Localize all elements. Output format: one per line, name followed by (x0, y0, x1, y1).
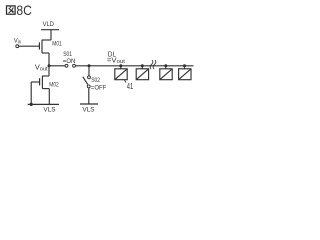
wire stub box4 (184, 66, 186, 69)
pixel box 4 (179, 69, 191, 80)
node gate-VLS junction dot (30, 103, 33, 106)
terminal Vin (16, 45, 19, 48)
wire M02 gate to VLS (30, 82, 32, 104)
break squiggle (150, 60, 156, 69)
wire M02 gate lead (31, 81, 39, 83)
pixel box 2 (136, 69, 148, 80)
node DL dot 4 (183, 64, 186, 67)
wire stub box2 (141, 66, 143, 69)
wire S02 stem (88, 66, 90, 76)
svg-text:S01: S01 (63, 52, 72, 58)
svg-text:M01: M01 (52, 41, 62, 47)
wire stub box1 (120, 66, 122, 69)
svg-text:=OFF: =OFF (91, 84, 107, 91)
transistor M01 (42, 39, 51, 41)
VLS rail right (80, 103, 98, 105)
switch S02 blade (83, 77, 88, 85)
svg-text:VLD: VLD (43, 21, 54, 28)
node Vout junction dot (48, 64, 51, 67)
svg-text:41: 41 (127, 82, 134, 91)
wire stub box3 (165, 66, 167, 69)
svg-text:=Vout: =Vout (107, 57, 126, 65)
wire trunk M01 source to M02 drain (48, 53, 50, 76)
svg-text:Vin: Vin (14, 38, 21, 46)
VLD rail (41, 29, 59, 31)
leader 41 (125, 80, 127, 83)
node DL dot 1 (119, 64, 122, 67)
svg-text:Vout: Vout (35, 65, 48, 73)
wire Vout node to S01 (49, 65, 65, 67)
node S02 branch dot (88, 64, 91, 67)
svg-text:M02: M02 (49, 82, 59, 88)
transistor M02 (42, 75, 49, 77)
svg-text:VLS: VLS (82, 106, 95, 113)
VLS rail left (28, 103, 59, 105)
pixel box 3 (160, 69, 172, 80)
switch S01 contacts (65, 64, 68, 67)
switch S02 bottom contact (87, 85, 90, 88)
figure label 図 glyph (7, 6, 16, 14)
node DL dot 2 (141, 64, 144, 67)
wire M02 source drop (48, 89, 50, 105)
svg-text:VLS: VLS (43, 106, 56, 113)
svg-text:S02: S02 (91, 78, 100, 84)
wire VLD stem (50, 30, 52, 40)
pixel box 41 (115, 69, 127, 80)
wire M01 gate lead (19, 45, 39, 47)
svg-text:=ON: =ON (63, 58, 76, 65)
node DL dot 3 (164, 64, 167, 67)
svg-text:8C: 8C (16, 2, 32, 18)
wire S02 to VLS (88, 88, 90, 104)
wire S01 to DL (76, 65, 194, 67)
switch S02 top contact (88, 76, 91, 79)
